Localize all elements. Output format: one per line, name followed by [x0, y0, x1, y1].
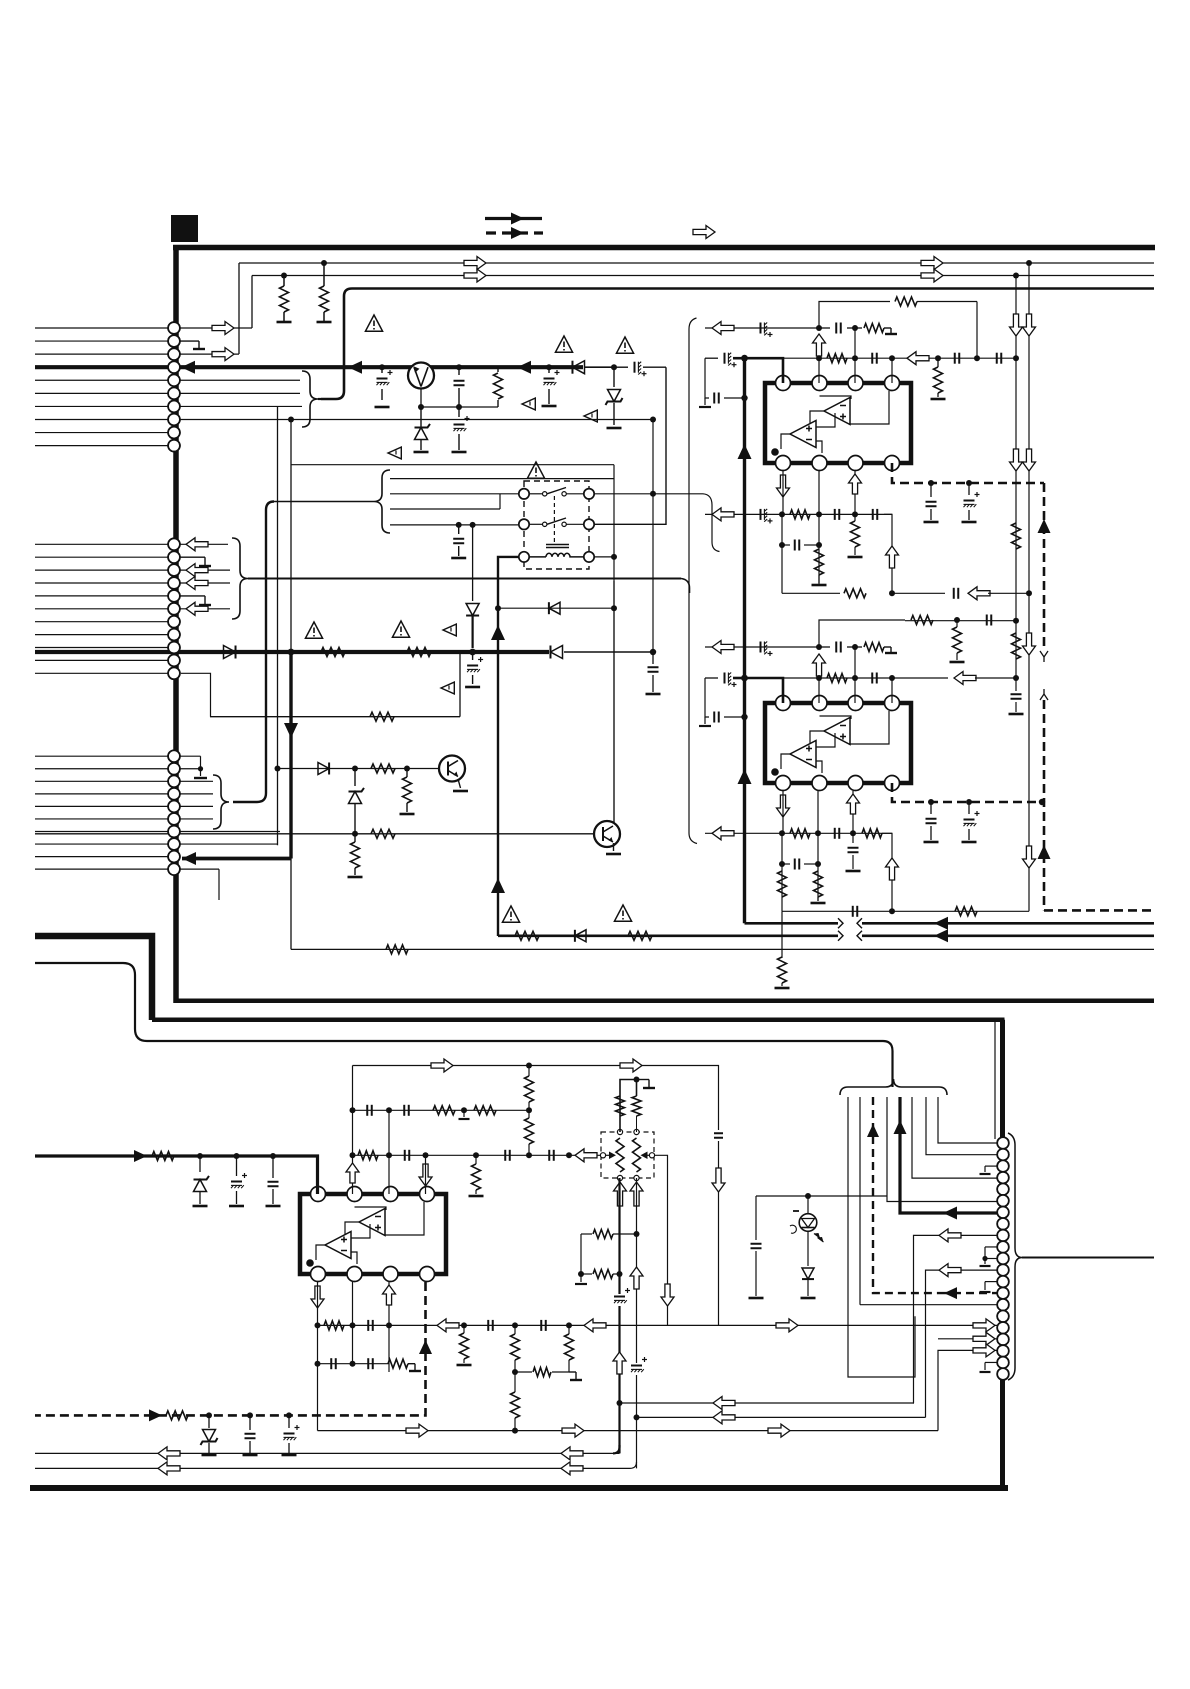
- wire pin1 drop ic2: [782, 791, 784, 833]
- CN4 pin10-11 ground: [980, 1247, 998, 1266]
- node row1430 x515: [512, 1428, 518, 1434]
- ground below R43: [457, 1364, 472, 1367]
- wire x782 to R32: [781, 911, 783, 958]
- CN2 pin5 ground hook: [180, 596, 211, 605]
- wire dist4 drop: [472, 525, 474, 600]
- open arrow row1468 a: [158, 1462, 180, 1475]
- resistor R19: [815, 549, 824, 583]
- zener D10: [201, 1415, 218, 1453]
- hollow arrow down x1029 b: [1023, 449, 1036, 471]
- wire x819 pin2 riser ic2: [816, 675, 822, 703]
- warning marker W5: [584, 410, 597, 422]
- wire bundle line x926: [926, 1097, 997, 1155]
- capacitor C46 (series): [368, 1358, 373, 1369]
- node row678 x744: [741, 675, 748, 682]
- wire a1-blade: [529, 493, 543, 495]
- wire x636 vertical: [636, 1178, 638, 1468]
- open arrow CN4 pin12: [939, 1264, 961, 1277]
- capacitor C41 (series): [549, 1150, 554, 1161]
- node row1325 x569: [566, 1322, 572, 1328]
- node row1415 a: [206, 1412, 212, 1418]
- RY1 switch blade 2: [543, 518, 567, 527]
- CN3 pin3 wire: [180, 780, 213, 782]
- wire x995 vertical: [994, 1022, 996, 1139]
- wire CN4 bracket tail: [1022, 1257, 1154, 1259]
- node row1415 b: [247, 1412, 253, 1418]
- electrolytic C13 (series): [705, 353, 745, 368]
- wire x498 riser: [497, 600, 499, 936]
- CN2 pin6 wire with arrow: [180, 602, 230, 615]
- node dist4 a: [456, 522, 462, 528]
- wire bundle line x887: [887, 1097, 997, 1202]
- node coil-right: [611, 554, 617, 560]
- solid arrow into CN1 pin4: [181, 361, 195, 374]
- hollow arrow up VR2: [630, 1182, 643, 1206]
- node x581: [578, 1271, 584, 1277]
- resistor R46 (x515 upper): [511, 1325, 520, 1372]
- CN1 pin8 wire (long): [180, 416, 656, 422]
- wire LED cap drop: [755, 1196, 757, 1240]
- hollow arrow down IC1 pin1: [777, 475, 790, 497]
- ground below R17: [931, 398, 946, 401]
- wire RY1 coil to bus: [498, 557, 519, 600]
- transistor Q1 (pass regulator): [408, 363, 434, 389]
- node row1415 c: [286, 1412, 292, 1418]
- ground C14: [699, 398, 711, 407]
- CN3 pin1-2 ground link: [180, 756, 207, 778]
- CN3 pin4 wire: [180, 793, 213, 795]
- CN1 pin7 wire: [180, 405, 302, 407]
- wire dashed bundle x873: [873, 1097, 940, 1293]
- open arrow row1430 a: [406, 1424, 428, 1437]
- zener D9: [194, 1156, 210, 1204]
- node row1325 x352: [350, 1322, 356, 1328]
- CN4 pin9 wire: [914, 1235, 998, 1403]
- CN1 left harness wires: [35, 328, 168, 446]
- capacitor C50: [751, 1244, 762, 1296]
- capacitor C14 (series): [714, 393, 747, 404]
- wire Q3 emitter: [606, 843, 621, 854]
- wire switched supply row (thick): [35, 650, 549, 654]
- CN1 pin8 riser wire: [291, 419, 653, 652]
- hollow arrow down x667: [661, 1284, 674, 1306]
- wire x1029 vertical: [1028, 263, 1030, 593]
- open arrow on net-A: [464, 257, 486, 270]
- open arrow row1430 c: [768, 1424, 790, 1437]
- hollow arrow down x1016 a: [1010, 314, 1023, 336]
- zener D3: [606, 367, 623, 425]
- pot VR2 terminal top: [634, 1129, 639, 1134]
- electrolytic C21: [964, 480, 980, 520]
- ground below R24: [950, 661, 965, 664]
- hollow arrow up x892 ic2: [886, 858, 899, 880]
- solid arrow up x744 a: [738, 444, 752, 459]
- wire row593 to x1029: [988, 592, 1029, 594]
- wire row 833: [705, 832, 892, 834]
- diode D14 (row 608): [549, 602, 560, 614]
- hollow arrow down IC2 pin1: [777, 795, 790, 817]
- open arrow row1325 right a: [776, 1319, 798, 1332]
- hollow arrow up IC1 pin3: [849, 474, 862, 494]
- capacitor C32 (series): [853, 906, 858, 917]
- node C1: [379, 364, 385, 370]
- CN4 pin15 wire: [860, 1304, 997, 1306]
- wire row 1453: [35, 1452, 620, 1454]
- wire x211 drop: [181, 673, 211, 716]
- wire dist line 2: [390, 493, 500, 495]
- open arrow row1065 a: [431, 1059, 453, 1072]
- resistor R1 (pull-down on net-B): [280, 276, 289, 323]
- resistor R31: [955, 907, 977, 916]
- electrolytic C35: [231, 1156, 247, 1204]
- wire row 678: [745, 677, 893, 679]
- capacitor C33: [926, 799, 937, 840]
- wire Q1 emitter node row: [421, 389, 498, 408]
- open arrow on net-A right: [921, 257, 943, 270]
- wire bottom border (thick): [30, 1485, 1008, 1491]
- node Q2row x277: [275, 766, 281, 772]
- CN4 pin20 ground hook: [980, 1362, 998, 1372]
- open arrow row593: [968, 587, 990, 600]
- wire bundle from CN3: [274, 501, 374, 503]
- node Q1-row a: [418, 404, 424, 410]
- resistor R28: [862, 829, 882, 838]
- wire bundle riser (medium): [233, 502, 274, 803]
- node dashed x1044: [1039, 799, 1045, 805]
- open arrow on net-B: [464, 269, 486, 282]
- resistor R51: [581, 1270, 620, 1279]
- solid arrow up x498 b: [491, 625, 505, 640]
- wire b1-blade: [529, 523, 543, 525]
- resistor R20: [844, 589, 866, 598]
- wire RY1 row1 to node: [594, 494, 720, 552]
- ground below C34: [962, 841, 977, 844]
- resistor R12: [515, 931, 539, 940]
- ground hook x569: [569, 1372, 582, 1380]
- node row1156 b: [234, 1153, 240, 1159]
- node row1156 a: [197, 1153, 203, 1159]
- electrolytic C4: [544, 367, 560, 404]
- node x636 a: [634, 1231, 640, 1237]
- wire bundle line x848: [848, 1097, 915, 1377]
- capacitor C22 (x1016 bottom): [1009, 678, 1024, 714]
- wire IC3 pin2 drop: [352, 1282, 354, 1364]
- resistor R17: [934, 358, 943, 397]
- wire thick x744 supply: [743, 358, 746, 923]
- hollow arrow down x718: [712, 1168, 725, 1192]
- node row652 x291: [288, 649, 295, 656]
- brace gathering dist lines: [374, 470, 390, 533]
- node row358 x938: [935, 355, 941, 361]
- CN2 pin1 open arrow: [180, 538, 228, 551]
- node on net-A: [1026, 260, 1032, 266]
- wire x389 riser: [388, 1110, 390, 1194]
- RY1 coil terminal 1: [519, 552, 529, 562]
- CN3 pin5 wire: [180, 805, 213, 807]
- open arrow row358: [907, 352, 929, 365]
- wire Q2 emitter: [458, 779, 461, 788]
- node row678 x892: [889, 675, 895, 681]
- electrolytic C15 (series): [761, 509, 773, 524]
- capacitor C37 (series): [367, 1105, 372, 1116]
- diode D5 (to dist4): [466, 600, 479, 648]
- hollow arrow down IC3 pin4: [419, 1164, 432, 1186]
- node Q2row x407: [404, 766, 410, 772]
- wire main supply row (thick): [35, 365, 583, 369]
- capacitor C10 (series): [872, 353, 877, 364]
- wire x352 riser: [352, 1066, 354, 1195]
- wire row911 right: [892, 910, 1029, 912]
- op-amp IC3: [300, 1187, 446, 1282]
- wire x1016 vertical: [1015, 276, 1017, 679]
- node row647 x855: [852, 644, 858, 650]
- RY1 contact a2: [584, 489, 594, 499]
- resistor R4: [321, 648, 345, 657]
- capacitor C38 (series): [404, 1105, 409, 1116]
- resistor R40 (above VR1): [616, 1096, 625, 1132]
- CN1 pin5 wire: [180, 379, 300, 381]
- op-amp IC1: [765, 376, 911, 471]
- node row647 x819: [816, 644, 822, 650]
- fork symbol a: [1040, 651, 1048, 662]
- wire CN1 bundle to net-C: [318, 398, 321, 400]
- node R1 top: [281, 273, 287, 279]
- node x515 mid: [512, 1369, 518, 1375]
- resistor R22b (series x1016): [1012, 633, 1021, 659]
- node row358 x1016: [1013, 355, 1019, 361]
- RY1 armature dashed link: [553, 496, 555, 543]
- open arrow row1155: [575, 1149, 597, 1162]
- wire row 620: [905, 618, 1019, 624]
- hollow arrow up IC3 pin2: [346, 1163, 359, 1183]
- resistor R41 (above VR2): [632, 1080, 641, 1133]
- wire thick to IC1 pin1: [745, 358, 784, 383]
- wire mid bus 2 (thin): [35, 963, 893, 1087]
- break symbol row936: [838, 929, 862, 943]
- resistor R25: [855, 643, 897, 654]
- electrolytic C1: [377, 367, 393, 400]
- node Q1-row b: [456, 404, 462, 410]
- open arrow row1325 right b: [973, 1319, 995, 1332]
- node x636 b: [634, 1414, 640, 1420]
- legend solid signal-path line: [485, 213, 542, 225]
- RY1 coil terminal 2: [584, 552, 594, 562]
- wire x1029 mid: [1028, 593, 1030, 700]
- node Q2row x355: [352, 766, 358, 772]
- wire Q2 base row: [278, 768, 441, 770]
- node row358 x977: [974, 355, 980, 361]
- node row833 x818: [815, 830, 821, 836]
- diode D6: [318, 763, 329, 775]
- wire row593 right: [892, 592, 945, 594]
- wire bottom-section top border: [152, 1017, 1005, 1022]
- resistor R23: [911, 616, 933, 625]
- ground below D9: [193, 1205, 208, 1208]
- wire thick into CN3 pin9: [182, 852, 291, 865]
- hollow arrow up x819: [813, 334, 826, 356]
- pot VR2 wiper arrow: [641, 1152, 650, 1160]
- wire dist line 4: [390, 524, 518, 526]
- resistor R48 (x569): [565, 1325, 574, 1372]
- node Q3row x355: [352, 831, 358, 837]
- ground below R39: [469, 1195, 484, 1198]
- wire row 1325: [318, 1324, 719, 1326]
- wire supply row to D3: [585, 366, 614, 368]
- wire top border (thick bus): [173, 245, 1155, 251]
- wire row 936 (medium): [498, 934, 1154, 937]
- connector CN2 pin circles (overlay): [168, 538, 180, 679]
- wire net-A horizontal: [239, 262, 1154, 264]
- capacitor C11 (series): [955, 353, 960, 364]
- wire supply row thin part: [564, 649, 656, 655]
- ground below R1: [277, 321, 292, 324]
- wire row 1403: [620, 1402, 915, 1404]
- node row833 x782: [779, 830, 785, 836]
- transistor Q3: [594, 821, 620, 847]
- ground below R32: [775, 987, 790, 990]
- transistor Q2: [439, 756, 465, 782]
- electrolytic C24 (series): [761, 642, 773, 657]
- open arrow on net-B right: [921, 269, 943, 282]
- diode D8: [575, 930, 586, 942]
- CN1 pin7 riser wire: [277, 406, 279, 845]
- wire row 1364: [318, 1363, 390, 1365]
- wire row 514: [705, 513, 892, 515]
- wire C14 loop: [705, 358, 709, 398]
- CN3 pin8 wire: [180, 843, 278, 845]
- wire row 1417: [637, 1416, 926, 1418]
- connector CN1 (10 pins): [168, 322, 180, 451]
- LED D11: [790, 1196, 824, 1242]
- ground below D12: [801, 1297, 816, 1300]
- wire blade-b2: [566, 523, 584, 525]
- pot VR2 terminal bottom: [634, 1175, 639, 1180]
- node row593 x892: [889, 590, 895, 596]
- resistor R21: [851, 514, 860, 555]
- warning marker W6: [388, 447, 401, 459]
- ground below C4: [542, 405, 557, 408]
- resistor R50: [581, 1230, 637, 1239]
- wire x425 riser: [425, 1155, 427, 1194]
- CN4 pin3 ground hook: [980, 1166, 998, 1174]
- node row1325 x389: [386, 1322, 392, 1328]
- wire row 1065: [353, 1066, 719, 1131]
- open arrow row1325 a: [437, 1319, 459, 1332]
- legend open arrow: [693, 226, 715, 239]
- node row1325 x317: [315, 1322, 321, 1328]
- hollow arrow down x1029 c: [1023, 846, 1036, 868]
- connector CN3 (10 pins): [168, 750, 180, 875]
- hollow arrow down x1029 d: [1023, 633, 1036, 655]
- CN2 left harness wires: [35, 544, 168, 673]
- resistor R11: [386, 945, 408, 954]
- wire x460 riser: [459, 652, 461, 717]
- pot VR2 element: [633, 1138, 641, 1172]
- wire row833 corner x892: [882, 833, 892, 911]
- open arrow row328: [712, 322, 734, 335]
- warning triangle W9: [392, 621, 409, 637]
- hollow arrow up x892: [886, 546, 899, 568]
- wire LED feed row: [756, 1195, 887, 1197]
- wire x782 drop: [781, 514, 783, 593]
- wire x782 drop ic2: [781, 833, 783, 911]
- wire bottom-section right border: [1000, 1020, 1005, 1488]
- node row328 x855: [852, 325, 858, 331]
- capacitor C28 (series): [714, 712, 747, 723]
- capacitor C6: [453, 525, 464, 556]
- ground below C3: [452, 451, 467, 454]
- node row833 x853: [850, 830, 856, 836]
- resistor R36 (x529 upper): [525, 1066, 534, 1111]
- open arrow row678: [954, 672, 976, 685]
- open arrow CN4 pin9: [939, 1229, 961, 1242]
- resistor R5: [407, 648, 431, 657]
- resistor R33: [152, 1152, 174, 1161]
- ground below D1: [414, 451, 429, 454]
- CN3 pin7 wire (to Q3 row): [180, 831, 280, 833]
- RY1 coil winding: [530, 553, 584, 557]
- solid arrow on supply row: [348, 361, 362, 374]
- brace bundle top: [840, 1079, 947, 1095]
- node row620 x957: [954, 617, 960, 623]
- resistor R26: [827, 674, 847, 683]
- hollow arrow up x636: [630, 1267, 643, 1289]
- node LED top: [805, 1193, 811, 1199]
- connector CN4 (21 pins): [997, 1137, 1009, 1380]
- node row514 x819: [816, 511, 822, 517]
- resistor R35: [474, 1106, 496, 1115]
- pot VR1 element: [616, 1138, 624, 1172]
- op-amp IC2: [765, 696, 911, 791]
- solid arrow row923: [934, 917, 948, 930]
- node row1155 x425: [423, 1152, 429, 1158]
- node R2 top: [321, 260, 327, 266]
- wire x619 vertical (medium): [618, 1178, 620, 1453]
- capacitor C25 (series): [819, 642, 855, 653]
- warning triangle W3: [616, 337, 633, 353]
- wire pin1 drop: [782, 471, 784, 514]
- wire x718 drop: [718, 1141, 720, 1325]
- node RY1 row1: [650, 491, 656, 497]
- connector CN4 pin circles (overlay): [997, 1137, 1009, 1380]
- RY1 core bars: [546, 545, 569, 548]
- solid arrow on supply row 2: [517, 361, 531, 374]
- ground below C35: [229, 1205, 244, 1208]
- electrolytic C3: [454, 407, 470, 450]
- hollow arrow down IC3 pin1: [311, 1286, 324, 1308]
- wire row 911: [782, 910, 892, 912]
- resistor R6: [371, 764, 395, 773]
- ground hook pots: [637, 1080, 656, 1089]
- node x619 b: [617, 1400, 623, 1406]
- wire dashed into CN4: [940, 1292, 997, 1294]
- electrolytic C51 (series x636): [630, 1357, 647, 1375]
- hollow arrow down x1016 b: [1010, 449, 1023, 471]
- wire IC3 pin3 drop: [388, 1282, 390, 1372]
- ground below x581: [575, 1274, 587, 1284]
- node row1156 c: [270, 1153, 276, 1159]
- node row1155 x352: [350, 1152, 356, 1158]
- CN3 pin10 wire: [180, 869, 219, 900]
- ground below R2: [317, 321, 332, 324]
- wire pot right to x667: [655, 1155, 668, 1325]
- wire x819 pin2 riser: [816, 355, 822, 383]
- wire x819 to row301: [819, 302, 890, 329]
- fork symbol b: [1040, 689, 1048, 700]
- wire pin3 drop: [854, 471, 856, 514]
- node row1065 x529: [526, 1063, 532, 1069]
- solid arrow up dashed x873: [867, 1124, 879, 1137]
